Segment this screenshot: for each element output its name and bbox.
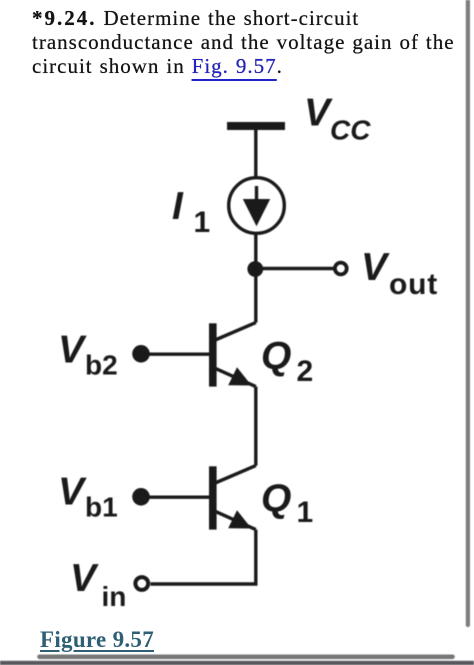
label Q2 xyxy=(261,335,313,388)
label VCC xyxy=(304,91,371,145)
wire Q1 emitter down and left to Vin terminal xyxy=(151,530,256,584)
wire Q2 emitter to Q1 collector xyxy=(254,387,257,466)
transistor Q2 xyxy=(209,323,256,387)
svg-text:Q: Q xyxy=(261,335,291,378)
svg-text:Q: Q xyxy=(261,478,291,521)
right scrollbar thumb xyxy=(466,0,470,625)
terminal Vin open circle xyxy=(135,577,148,590)
svg-text:1: 1 xyxy=(194,206,211,239)
VCC supply rail xyxy=(227,122,285,130)
svg-text:in: in xyxy=(102,581,127,612)
label I1 xyxy=(172,185,210,239)
wire output node down to Q2 collector xyxy=(254,269,257,323)
svg-text:b2: b2 xyxy=(85,350,118,381)
wire VCC rail to current source I1 xyxy=(254,130,257,178)
label Vout xyxy=(361,246,438,301)
current source I1 xyxy=(229,178,285,234)
wire Vb1 to Q1 base xyxy=(141,496,209,499)
svg-text:CC: CC xyxy=(330,115,371,146)
svg-text:V: V xyxy=(58,471,87,514)
terminal Vout open circle xyxy=(335,263,347,275)
label Q1 xyxy=(261,478,313,530)
svg-text:out: out xyxy=(389,268,438,301)
wire I1 to output node xyxy=(254,233,257,269)
label Vb2 xyxy=(58,329,118,381)
figure caption underline rule xyxy=(40,654,453,659)
svg-text:b1: b1 xyxy=(85,492,118,523)
svg-text:V: V xyxy=(361,246,390,289)
svg-text:V: V xyxy=(304,91,333,134)
bottom dark bar xyxy=(0,661,474,665)
node output junction xyxy=(247,261,263,277)
transistor Q1 xyxy=(209,466,256,530)
wire node to Vout terminal xyxy=(255,267,334,270)
problem statement paragraph xyxy=(32,6,472,79)
svg-text:I: I xyxy=(172,185,184,228)
svg-text:2: 2 xyxy=(297,355,314,388)
svg-text:V: V xyxy=(70,557,99,600)
wire Vb2 to Q2 base xyxy=(141,353,209,356)
svg-text:1: 1 xyxy=(297,496,314,529)
label Vin xyxy=(70,557,126,612)
node Vb1 xyxy=(132,488,150,506)
node Vb2 xyxy=(132,345,150,363)
figure caption link xyxy=(40,627,154,653)
svg-text:V: V xyxy=(58,329,87,372)
label Vb1 xyxy=(58,471,118,523)
